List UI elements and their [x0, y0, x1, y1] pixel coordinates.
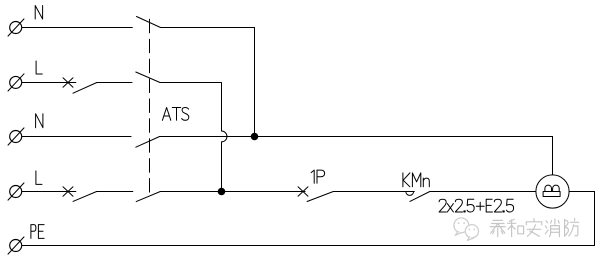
wire line1 left [22, 27, 132, 29]
node A junction dot [251, 133, 259, 141]
label N (line 3) [36, 114, 43, 128]
ATS blade 2 [136, 72, 160, 83]
breaker blade QF4 [73, 192, 97, 202]
wire drop to node B [221, 142, 223, 192]
label PE [31, 225, 44, 239]
label N (line 1) [35, 6, 42, 20]
wire hop over line3 [222, 131, 227, 142]
bell inner base rect [543, 192, 560, 197]
ATS dashed link [149, 19, 151, 196]
wire line2 left [22, 82, 76, 84]
node B junction dot [218, 188, 226, 196]
contactor KMn blade [410, 192, 430, 202]
wire bell right [569, 191, 594, 193]
breaker blade QF2 [73, 83, 97, 94]
terminal T5 (PE) [8, 237, 24, 254]
breaker 1P X mark [298, 187, 308, 196]
label L (line 4) [36, 171, 42, 185]
wire line2 mid [97, 82, 132, 84]
terminal T1 (line N1) [8, 19, 24, 36]
ATS blade 4 [136, 192, 160, 202]
安 [526, 219, 542, 237]
watermark logo (gray chat bubbles) [454, 218, 479, 240]
wire line4 mid [97, 191, 133, 193]
wire line4 right to 1P [160, 191, 305, 193]
breaker X mark QF2 [63, 78, 73, 87]
wire drop to bell top [552, 137, 554, 175]
bell B circle [536, 175, 569, 208]
消 [545, 219, 559, 237]
和 [508, 219, 524, 236]
label 1P [311, 170, 325, 183]
wire line3 left [22, 136, 131, 138]
breaker 1P blade [307, 192, 333, 202]
PE return riser [594, 192, 596, 246]
ATS blade 1 [137, 17, 161, 28]
label L (line 2) [36, 61, 42, 74]
contactor KMn arc [406, 192, 414, 196]
wire line1 right + drop to node [161, 28, 255, 137]
防 [565, 219, 579, 237]
wire PE [22, 245, 595, 247]
wire to KMn [333, 191, 414, 193]
泰 [490, 220, 505, 236]
wire line4 left [22, 191, 76, 193]
terminal T4 (line L4) [8, 183, 24, 200]
watermark text 泰和安消防 (simplified strokes) [490, 219, 579, 237]
terminal T3 (line N3) [8, 128, 24, 145]
label ATS [162, 108, 188, 121]
label 2x2.5+E2.5 [439, 199, 513, 212]
breaker X mark QF4 [63, 187, 73, 196]
ATS blade 3 [136, 137, 160, 148]
label KMn [403, 173, 429, 187]
wire line3 right [160, 136, 553, 138]
terminal T2 (line L2) [8, 74, 24, 91]
wire KMn to bell [430, 191, 536, 193]
bell inner arch 2 [553, 185, 560, 191]
wire line2 right + drop [160, 83, 222, 132]
bell inner arch 1 [545, 185, 552, 191]
